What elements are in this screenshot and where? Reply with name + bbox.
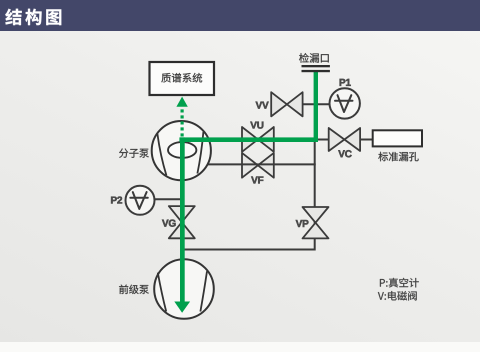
vacuum gauge P2 (126, 186, 155, 215)
green arrow into backing pump (174, 302, 190, 313)
label VF (251, 177, 263, 184)
green dashed line to mass-spec arrow (181, 108, 184, 137)
wire green junction to VC to standard leak box (315, 139, 374, 141)
label 检漏口 (leak port) (299, 53, 329, 63)
valve VP (303, 207, 329, 223)
label P1 (340, 79, 351, 86)
mass spectrometer box (150, 62, 215, 95)
label 质谱系统 (mass spec system) (161, 73, 202, 83)
vacuum gauge P1 (330, 88, 360, 118)
wire P2 to green line (153, 198, 182, 200)
legend P:真空计 (380, 278, 419, 288)
molecular pump body (152, 121, 211, 180)
green arrow to mass-spec box (176, 97, 187, 107)
label 前级泵 (backing pump) (119, 285, 149, 294)
label VC (338, 150, 351, 157)
legend V:电磁阀 (378, 291, 417, 300)
label VU (250, 122, 263, 129)
header title 结构图 (5, 9, 61, 25)
green main vertical through pumps (180, 137, 185, 302)
green vertical from leak port to main junction (314, 72, 318, 142)
light strip at bottom (0, 342, 480, 352)
label VV (256, 102, 269, 109)
label VG (162, 220, 176, 227)
valve VU (green line passes over it) (242, 127, 258, 152)
standard leak box (373, 130, 422, 146)
green horizontal main line through VU (179, 137, 318, 142)
header bar (0, 0, 480, 31)
valve VG (green line passes over it) (169, 206, 195, 222)
label VP (296, 220, 309, 227)
valve VF (wire passes over it) (242, 153, 258, 178)
label 分子泵 (molecular pump) (119, 149, 149, 158)
wire right column vertical (junction to VP and bottom elbow to green line) (182, 139, 316, 250)
wire VV to P1 through leak-port drop (301, 103, 331, 105)
leak detection port symbol (302, 65, 330, 67)
valve VC (329, 128, 345, 151)
backing pump body (154, 259, 214, 319)
valve VV (271, 92, 287, 116)
wire pump to VF to right column (195, 163, 316, 165)
label 标准漏孔 (standard leak) (378, 152, 418, 161)
label P2 (111, 197, 122, 204)
